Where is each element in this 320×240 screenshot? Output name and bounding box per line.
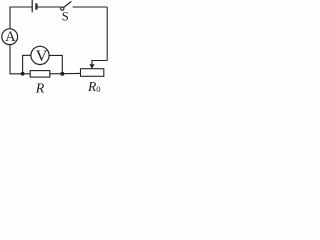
switch S lever bbox=[64, 1, 72, 7]
wire right side vertical bbox=[106, 7, 108, 61]
battery B1 short plate bbox=[35, 3, 37, 9]
svg-text:R: R bbox=[35, 82, 45, 96]
wire ammeter down to bottom rail bbox=[9, 45, 11, 75]
voltmeter V circle bbox=[31, 46, 49, 64]
junction dot left bbox=[21, 72, 25, 76]
wire switch to top-right corner bbox=[73, 6, 108, 8]
bottom wire resistor to rheostat bbox=[50, 72, 81, 74]
svg-text:R0: R0 bbox=[87, 79, 101, 94]
svg-text:A: A bbox=[5, 29, 16, 45]
bottom wire left of resistor bbox=[10, 73, 31, 75]
rheostat R0 body bbox=[81, 69, 104, 77]
svg-text:V: V bbox=[36, 48, 48, 65]
voltmeter branch right vertical bbox=[49, 55, 62, 73]
voltmeter branch left vertical bbox=[23, 55, 31, 73]
wire jog to rheostat wiper bbox=[92, 61, 107, 66]
resistor R body bbox=[30, 71, 50, 78]
ammeter A circle bbox=[2, 29, 18, 45]
switch S pivot circle bbox=[61, 7, 64, 10]
battery B1 long plate bbox=[31, 0, 33, 12]
junction dot right bbox=[60, 72, 64, 76]
rheostat wiper arrowhead bbox=[89, 64, 94, 68]
svg-text:S: S bbox=[62, 9, 69, 23]
wire battery to switch bbox=[38, 6, 61, 8]
wire top-left corner and down to ammeter bbox=[10, 7, 32, 29]
